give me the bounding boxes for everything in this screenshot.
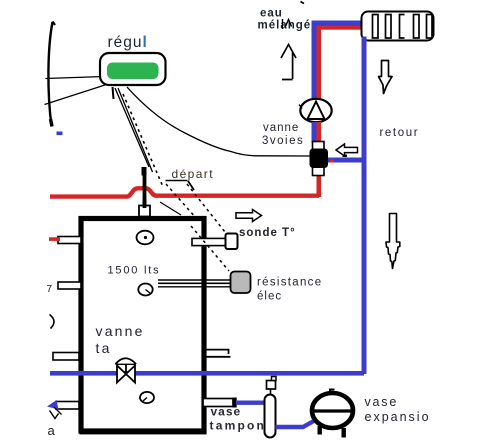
svg-text:vanne: vanne: [263, 122, 299, 134]
svg-text:vanne: vanne: [96, 323, 145, 339]
svg-text:tampon: tampon: [210, 419, 267, 433]
svg-text:3voies: 3voies: [262, 135, 304, 147]
svg-text:vase: vase: [211, 405, 242, 419]
svg-text:7: 7: [47, 284, 53, 295]
svg-text:régul: régul: [108, 34, 148, 51]
svg-text:a: a: [48, 423, 56, 438]
svg-text:eau: eau: [260, 8, 283, 20]
svg-text:retour: retour: [380, 127, 420, 139]
svg-text:mélangé: mélangé: [258, 20, 312, 32]
svg-text:1500 lts: 1500 lts: [108, 265, 161, 277]
svg-text:élec: élec: [257, 291, 282, 303]
svg-text:ta: ta: [96, 340, 112, 356]
svg-text:résistance: résistance: [257, 277, 322, 289]
svg-text:sonde T°: sonde T°: [239, 227, 296, 239]
svg-text:vase: vase: [365, 395, 399, 409]
svg-text:départ: départ: [172, 167, 214, 181]
svg-text:expansio: expansio: [365, 410, 431, 424]
